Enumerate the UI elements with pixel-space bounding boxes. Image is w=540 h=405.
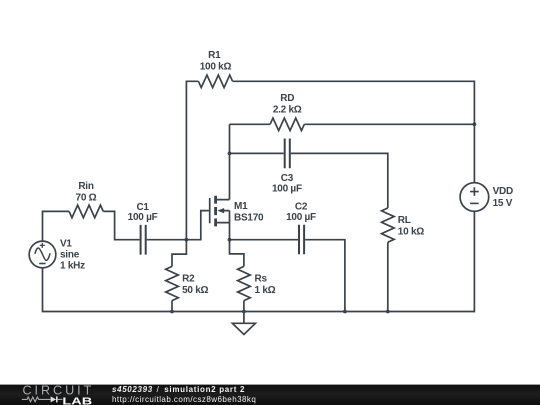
wire R2 bottom to bottom rail xyxy=(171,301,173,312)
wire RD right lead to right rail xyxy=(304,123,474,125)
wire Rs bottom to bottom rail xyxy=(243,301,245,312)
node RL bottom junction xyxy=(386,310,390,314)
svg-text:100 µF: 100 µF xyxy=(272,183,302,194)
svg-text:R2: R2 xyxy=(182,274,195,285)
svg-text:RD: RD xyxy=(280,93,294,104)
node RD right rail junction xyxy=(473,122,477,126)
node C2 bottom junction xyxy=(343,310,347,314)
footer bar xyxy=(0,384,540,405)
wire source to C2 left plate xyxy=(230,239,299,241)
wire V1 top to Rin left lead xyxy=(43,211,70,241)
svg-text:1 kHz: 1 kHz xyxy=(60,261,85,272)
voltage source V1 (sine) xyxy=(29,241,56,268)
resistor RL xyxy=(382,208,395,242)
wire drain rail to RD left lead xyxy=(230,123,271,125)
ground xyxy=(232,312,255,335)
capacitor C1 xyxy=(141,225,146,255)
capacitor C3 xyxy=(285,139,290,169)
voltage source VDD xyxy=(460,183,489,212)
resistor R1 xyxy=(198,75,232,88)
node Rs bottom junction xyxy=(242,310,246,314)
svg-text:10 kΩ: 10 kΩ xyxy=(398,227,424,238)
svg-text:100 µF: 100 µF xyxy=(286,212,316,223)
svg-text:M1: M1 xyxy=(234,201,248,212)
svg-text:2.2 kΩ: 2.2 kΩ xyxy=(273,105,302,116)
svg-text:100 µF: 100 µF xyxy=(128,212,158,223)
svg-text:Rin: Rin xyxy=(78,181,94,192)
svg-text:RL: RL xyxy=(398,215,411,226)
node drain to C3 junction xyxy=(228,152,232,156)
wire gate junction jog to R2 top xyxy=(172,240,186,267)
svg-text:100 kΩ: 100 kΩ xyxy=(200,62,232,73)
svg-text:R1: R1 xyxy=(208,50,221,61)
wire drain junction to C3 left plate xyxy=(230,152,284,154)
svg-text:1 kΩ: 1 kΩ xyxy=(255,285,276,296)
wire C3 right plate to RL top xyxy=(291,153,388,208)
wire RL bottom to bottom rail xyxy=(387,242,389,311)
wire C1 right plate to gate of M1 xyxy=(147,211,209,240)
svg-text:15 V: 15 V xyxy=(493,198,513,209)
capacitor C2 xyxy=(299,225,304,255)
svg-text:50 kΩ: 50 kΩ xyxy=(182,285,208,296)
svg-text:70 Ω: 70 Ω xyxy=(76,192,97,203)
footer url text xyxy=(112,395,256,404)
wire bottom rail V1 to VDD minus xyxy=(43,211,475,311)
wire C2 right plate down to bottom rail xyxy=(305,240,345,312)
node R2 bottom junction xyxy=(170,310,174,314)
wire source jog to Rs top xyxy=(230,240,244,267)
resistor RD xyxy=(270,118,304,131)
svg-text:VDD: VDD xyxy=(493,186,513,197)
svg-text:Rs: Rs xyxy=(255,274,268,285)
svg-text:LAB: LAB xyxy=(62,396,92,405)
resistor Rin xyxy=(69,205,103,218)
wire R1 right lead to right rail down to VDD plus xyxy=(233,81,475,182)
node gate junction xyxy=(185,238,189,242)
node source junction xyxy=(228,238,232,242)
CircuitLab logo xyxy=(0,384,110,405)
wire gate junction up to R1 left lead xyxy=(186,81,198,239)
transistor M1 (NMOS BS170) xyxy=(210,124,230,239)
svg-text:V1: V1 xyxy=(60,239,72,250)
footer title text xyxy=(112,385,245,394)
wire Rin to C1 left plate xyxy=(103,211,139,239)
resistor Rs xyxy=(238,266,251,300)
svg-text:BS170: BS170 xyxy=(234,212,264,223)
resistor R2 xyxy=(166,266,179,300)
svg-text:sine: sine xyxy=(60,250,80,261)
